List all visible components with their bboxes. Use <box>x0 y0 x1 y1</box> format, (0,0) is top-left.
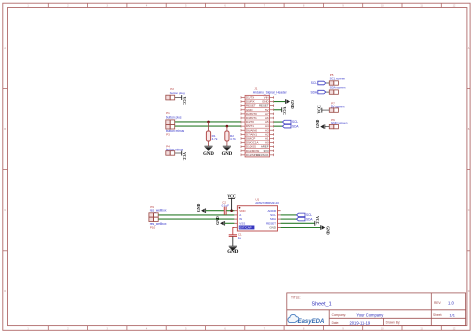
ground (R1) <box>203 146 214 157</box>
svg-text:SDA: SDA <box>306 217 313 221</box>
svg-text:4.7k: 4.7k <box>212 137 218 141</box>
connector P9 <box>149 205 167 217</box>
wire EXT/CAP down to C1 <box>233 228 235 235</box>
power flag VCC (U1) <box>227 194 236 210</box>
connector P7 <box>329 101 344 112</box>
junction on button minus at R2 <box>226 125 229 128</box>
svg-text:GND: GND <box>203 152 214 157</box>
svg-text:D: D <box>468 290 470 293</box>
wire J1 5V pin to VCC <box>274 109 282 111</box>
svg-text:P10: P10 <box>150 225 156 229</box>
svg-text:GND: GND <box>222 152 233 157</box>
capacitor C1 <box>229 233 242 240</box>
svg-text:GND: GND <box>227 250 239 255</box>
ground (C1) <box>227 236 239 255</box>
svg-text:GND: GND <box>316 119 320 128</box>
net port SCL (J1) <box>282 120 298 124</box>
svg-text:P1: P1 <box>166 111 170 115</box>
connector P4 <box>166 144 184 155</box>
wire U1 SCL to flag <box>281 214 297 216</box>
connector P3 <box>166 125 185 137</box>
svg-text:D13/SCK: D13/SCK <box>257 153 269 157</box>
svg-text:SCL screen: SCL screen <box>330 76 346 80</box>
net port SDA (U1) <box>297 217 314 221</box>
svg-text:1/1: 1/1 <box>450 312 455 317</box>
wire button plus net <box>175 121 241 123</box>
svg-text:Arduino_Signal_Header: Arduino_Signal_Header <box>253 91 288 95</box>
wire ground to C2 <box>206 210 225 212</box>
svg-text:GND: GND <box>216 216 220 225</box>
svg-text:VCC: VCC <box>182 152 186 160</box>
ground (U1 right) <box>321 225 330 235</box>
svg-text:D: D <box>4 290 6 293</box>
connector SDA screen <box>329 86 345 95</box>
wire P9 to U1 pin A <box>158 214 234 216</box>
svg-text:GND: GND <box>269 226 277 230</box>
ground (VSS, left) <box>216 216 225 226</box>
svg-text:C: C <box>4 209 6 212</box>
wire J1 A5 to SCL flag <box>274 121 283 123</box>
U1 pin stubs <box>234 211 280 228</box>
wire P7 to VCC <box>322 109 329 111</box>
svg-text:1.0: 1.0 <box>448 301 454 306</box>
connector P10 <box>149 217 167 229</box>
resistor R2 <box>225 126 237 146</box>
connector P6 <box>329 118 347 129</box>
capacitor C2 <box>222 200 230 215</box>
svg-text:res_wellbox: res_wellbox <box>150 209 167 213</box>
connector J1 <box>241 87 288 157</box>
svg-text:Your Company: Your Company <box>356 313 384 318</box>
svg-text:C: C <box>468 209 470 212</box>
wire P10 to U1 pin W <box>158 218 234 220</box>
svg-text:TITLE:: TITLE: <box>291 295 301 299</box>
svg-text:SDA: SDA <box>292 124 299 128</box>
svg-text:VCC: VCC <box>315 216 319 224</box>
ground (P6) <box>316 119 325 129</box>
svg-text:VCC: VCC <box>182 97 186 105</box>
svg-text:Date:: Date: <box>332 321 340 325</box>
connector P1 <box>166 111 182 124</box>
svg-text:AD5272BRMZ-20: AD5272BRMZ-20 <box>255 201 279 205</box>
svg-text:SDA screen: SDA screen <box>330 86 346 90</box>
wire P2 to VCC <box>175 97 182 99</box>
op-amp U1 body <box>237 197 279 231</box>
svg-text:REV:: REV: <box>434 301 441 305</box>
wire U1 GND to ground <box>281 227 321 229</box>
svg-text:EXT/CAP: EXT/CAP <box>239 226 251 230</box>
svg-text:VCC: VCC <box>282 107 286 115</box>
wire P4 to VCC <box>175 152 182 154</box>
wire U1 SDA to flag <box>281 218 297 220</box>
svg-text:P3: P3 <box>166 133 170 137</box>
svg-text:EasyEDA: EasyEDA <box>298 319 325 325</box>
wire C2 to VDD <box>226 210 234 212</box>
svg-text:Drawn By:: Drawn By: <box>386 321 401 325</box>
svg-text:VCC: VCC <box>317 105 321 113</box>
svg-text:0.1uF: 0.1uF <box>222 203 230 207</box>
wire P6 to ground <box>325 126 330 128</box>
net port SCL (U1) <box>297 213 313 217</box>
junction at VCC/VDD <box>230 209 233 212</box>
net port SDA (screen) <box>310 90 325 94</box>
svg-text:GND: GND <box>325 226 329 235</box>
junction on button plus at R1 <box>207 121 210 124</box>
svg-text:button plug: button plug <box>170 91 185 95</box>
svg-text:SDA: SDA <box>310 90 317 94</box>
wire J1 A4 to SDA flag <box>274 125 283 127</box>
ground (J1 right) <box>286 99 295 109</box>
power flag VCC (P7) <box>317 105 321 113</box>
wire button minus net <box>175 125 241 127</box>
wire P5 to SCL port <box>326 82 330 84</box>
resistor R1 <box>206 122 218 146</box>
wire J1 GND pin to ground <box>274 101 286 103</box>
ground (R2) <box>222 146 233 157</box>
net port SDA (J1) <box>282 124 299 128</box>
svg-text:Sheet:: Sheet: <box>433 313 442 317</box>
wire SDA screen to SDA port <box>326 91 330 93</box>
connector P5 <box>329 73 345 85</box>
power flag VCC (J1 right) <box>282 107 286 115</box>
svg-text:4.7k: 4.7k <box>230 137 236 141</box>
svg-text:GND: GND <box>290 100 294 109</box>
power flag VCC (P2) <box>182 95 186 105</box>
power flag VCC (RESET) <box>315 216 319 226</box>
connector P2 <box>166 87 185 100</box>
svg-text:Company:: Company: <box>332 313 347 317</box>
wire ground to VSS <box>225 222 235 224</box>
power flag VCC (P4) <box>182 151 186 161</box>
ground (VDD decoupling, left) <box>197 203 206 213</box>
svg-text:button plus: button plus <box>166 116 182 120</box>
svg-text:SCL: SCL <box>311 81 317 85</box>
svg-text:VCC: VCC <box>227 194 236 198</box>
svg-text:2019-11-19: 2019-11-19 <box>350 320 371 325</box>
EasyEDA logo <box>288 314 324 325</box>
wire U1 RESET to VCC <box>281 222 315 224</box>
svg-text:1u: 1u <box>238 236 242 240</box>
title block <box>287 293 466 326</box>
net port SCL (screen) <box>311 81 326 85</box>
svg-text:GND: GND <box>197 203 201 212</box>
svg-text:Sheet_1: Sheet_1 <box>312 302 332 308</box>
